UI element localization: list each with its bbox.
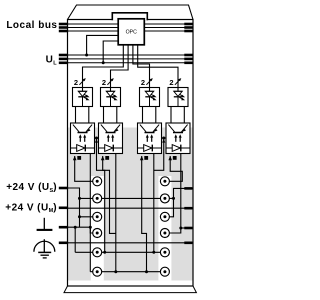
terminal column light strip left [91,176,104,280]
wire channel 2 signal into optocoupler [110,77,112,88]
row 6 wire [90,271,165,273]
terminal point 1.6 [93,267,102,276]
module housing front face [68,20,194,287]
wire channel 2 output down [103,156,116,233]
junction US row 3 left [78,215,81,218]
status LED square channel 3 [144,156,148,160]
phototransistor Q2 light arrows [107,134,114,142]
stub FE left [59,242,68,245]
junction UL line 1 [85,54,88,57]
diode D4b in receiver [166,145,190,152]
phototransistor Q2 [101,125,120,133]
wire US tap left pair down to row 5 [97,138,105,252]
stub +24V US left [59,187,68,190]
phototransistor Q4 [168,125,187,133]
wire channel 1 signal into optocoupler [82,77,84,88]
phototransistor Q1 [73,125,92,133]
UL stubs left [59,54,68,57]
LED D2 [106,88,114,107]
wire channel 3 output down [142,156,147,272]
UL bus wires [68,54,194,56]
optocoupler U3 LED box [140,88,160,107]
optocoupler U1 LED box [73,88,93,107]
LED D3 [145,88,153,107]
FE rail [68,242,194,244]
diode D1b in receiver [71,145,95,152]
wire channel 3 signal into optocoupler [149,77,151,88]
terminal point 1.2 [93,194,102,203]
LED D2 emission arrows [112,94,118,100]
wire channel 1 output to terminal 1.1 [75,156,98,181]
status LED square channel 2 [105,156,109,160]
wire channel 1 GND return [89,154,91,272]
junction row 5 left [103,251,106,254]
wire GND rail to terminal 2.4 [165,228,181,233]
LED D1 emission arrows [84,94,90,100]
terminal point 2.4 [160,229,169,238]
wire US tap channels 3+4 [162,137,167,139]
status LED square channel 1 [77,156,81,160]
wire US left jog [68,188,80,227]
terminal point 1.5 [93,248,102,257]
LED D3 emission arrows [151,94,157,100]
channel 2 output arrow [101,156,105,160]
channel 2 driver arrow [107,78,113,85]
wire OPC pin 2 to channel 2 [111,45,129,77]
module top connector bump [112,13,147,20]
diode D3b in receiver [138,145,162,152]
junction US row 2 left [78,197,81,200]
channel 1 driver arrow [79,78,85,85]
channel 4 output arrow [168,156,172,160]
phototransistor Q3 light arrows [146,134,153,142]
svg-text:+24 V (US): +24 V (US) [6,182,57,194]
wire US tap channels 1+2 [95,137,99,139]
current arrow US tap right [162,139,165,143]
svg-text:2: 2 [169,78,173,87]
svg-text:2: 2 [102,78,106,87]
local bus stubs left [59,23,68,26]
stub US right [184,187,192,190]
junction US row 2 right [172,197,175,200]
LED D1 [78,88,86,107]
LED D4 [174,88,182,107]
terminal point 2.3 [160,212,169,221]
wire GND rail to terminal 1.4 [90,227,97,233]
local bus wires left of OPC [68,23,119,25]
svg-text:2: 2 [74,78,78,87]
junction channel 3 GND row 5 [152,251,155,254]
wire US to terminal row 2 right stub [165,197,174,199]
wire US to terminal row 3 left [80,216,98,218]
ground symbol [37,218,53,230]
local bus wires right of OPC [144,23,193,25]
optocoupler U3 receiver box [138,123,162,154]
current arrow US tap left [95,139,98,143]
wire channel 4 GND return [180,154,182,229]
module housing top face [68,5,194,20]
terminal column light strip right [158,176,171,280]
optocoupler U3 light channel [142,107,144,124]
stub +24V UM left [59,207,68,210]
optocoupler U4 light channel [170,107,172,124]
functional earth symbol [34,239,55,258]
wire channel 3 GND return to row 5 [153,154,155,253]
row 5 wire [75,251,165,253]
terminal point 2.1 [160,177,169,186]
stub FE right [184,242,192,245]
wire channel 2 GND return to row 6 [115,154,117,272]
junction channel 2 GND row 6 [114,270,117,273]
GND rail left [68,226,91,228]
UL stubs right [184,54,192,57]
svg-text:2: 2 [141,78,145,87]
GND rail right [181,227,193,229]
channel 4 driver arrow [175,78,181,85]
terminal point 1.4 [93,229,102,238]
svg-text:U: U [46,54,53,65]
junction UL line 3 [102,61,105,64]
terminal point 2.6 [160,267,169,276]
stub UM right [184,207,192,210]
terminal point 1.3 [93,212,102,221]
module bottom foot [64,286,196,293]
junction channel 4 GND on rail [179,227,182,230]
junction US tap left pair [95,137,98,140]
wire OPC to UL line 3 [103,41,118,63]
junction channel 1 GND on rail [89,226,92,229]
optocoupler U2 LED box [101,88,121,107]
channel 3 output arrow [140,156,144,160]
wire GND rail down to row 5 [74,227,76,252]
terminal point 2.2 [160,194,169,203]
wire OPC to UL line 1 [87,35,119,55]
wire OPC pin 1 to channel 1 [83,45,124,77]
wire US right jog [165,188,193,216]
diode D2b in receiver [99,145,123,152]
wire US terminal row 2 across [80,197,165,199]
optocoupler U4 receiver box [166,123,190,154]
optocoupler U2 light channel [103,107,105,124]
UM rail [68,207,194,209]
stub GND left [59,226,68,229]
optocoupler U4 LED box [168,88,188,107]
channel 3 driver arrow [146,78,152,85]
svg-text:Local bus: Local bus [6,20,57,31]
phototransistor Q3 [140,125,159,133]
optocoupler U1 receiver box [71,123,95,154]
wire US tap right pair join [154,138,164,170]
junction US tap right pair [162,137,165,140]
terminal point 1.1 [93,177,102,186]
channel 1 output arrow [73,156,77,160]
local bus stubs right [184,23,192,26]
op chip OPC U1 [118,19,144,45]
wire OPC pin 3 to channel 3 [133,45,150,77]
wire OPC pin 4 to channel 4 [138,45,178,77]
phototransistor Q4 light arrows [174,134,181,142]
wire channel 4 output to terminal 2.1 [165,156,182,181]
LED D4 emission arrows [179,94,185,100]
module shaded interior [68,128,193,281]
wire channel 4 signal into optocoupler [177,77,179,88]
status LED square channel 4 [173,156,177,160]
optocoupler U1 light channel [75,107,77,124]
junction channel 3 output row 6 [145,270,148,273]
svg-text:OPC: OPC [126,29,137,35]
stub GND right [184,227,192,230]
junction GND row 5 drop [74,226,77,229]
optocoupler U2 receiver box [99,123,123,154]
phototransistor Q1 light arrows [79,134,86,142]
terminal point 2.5 [160,248,169,257]
